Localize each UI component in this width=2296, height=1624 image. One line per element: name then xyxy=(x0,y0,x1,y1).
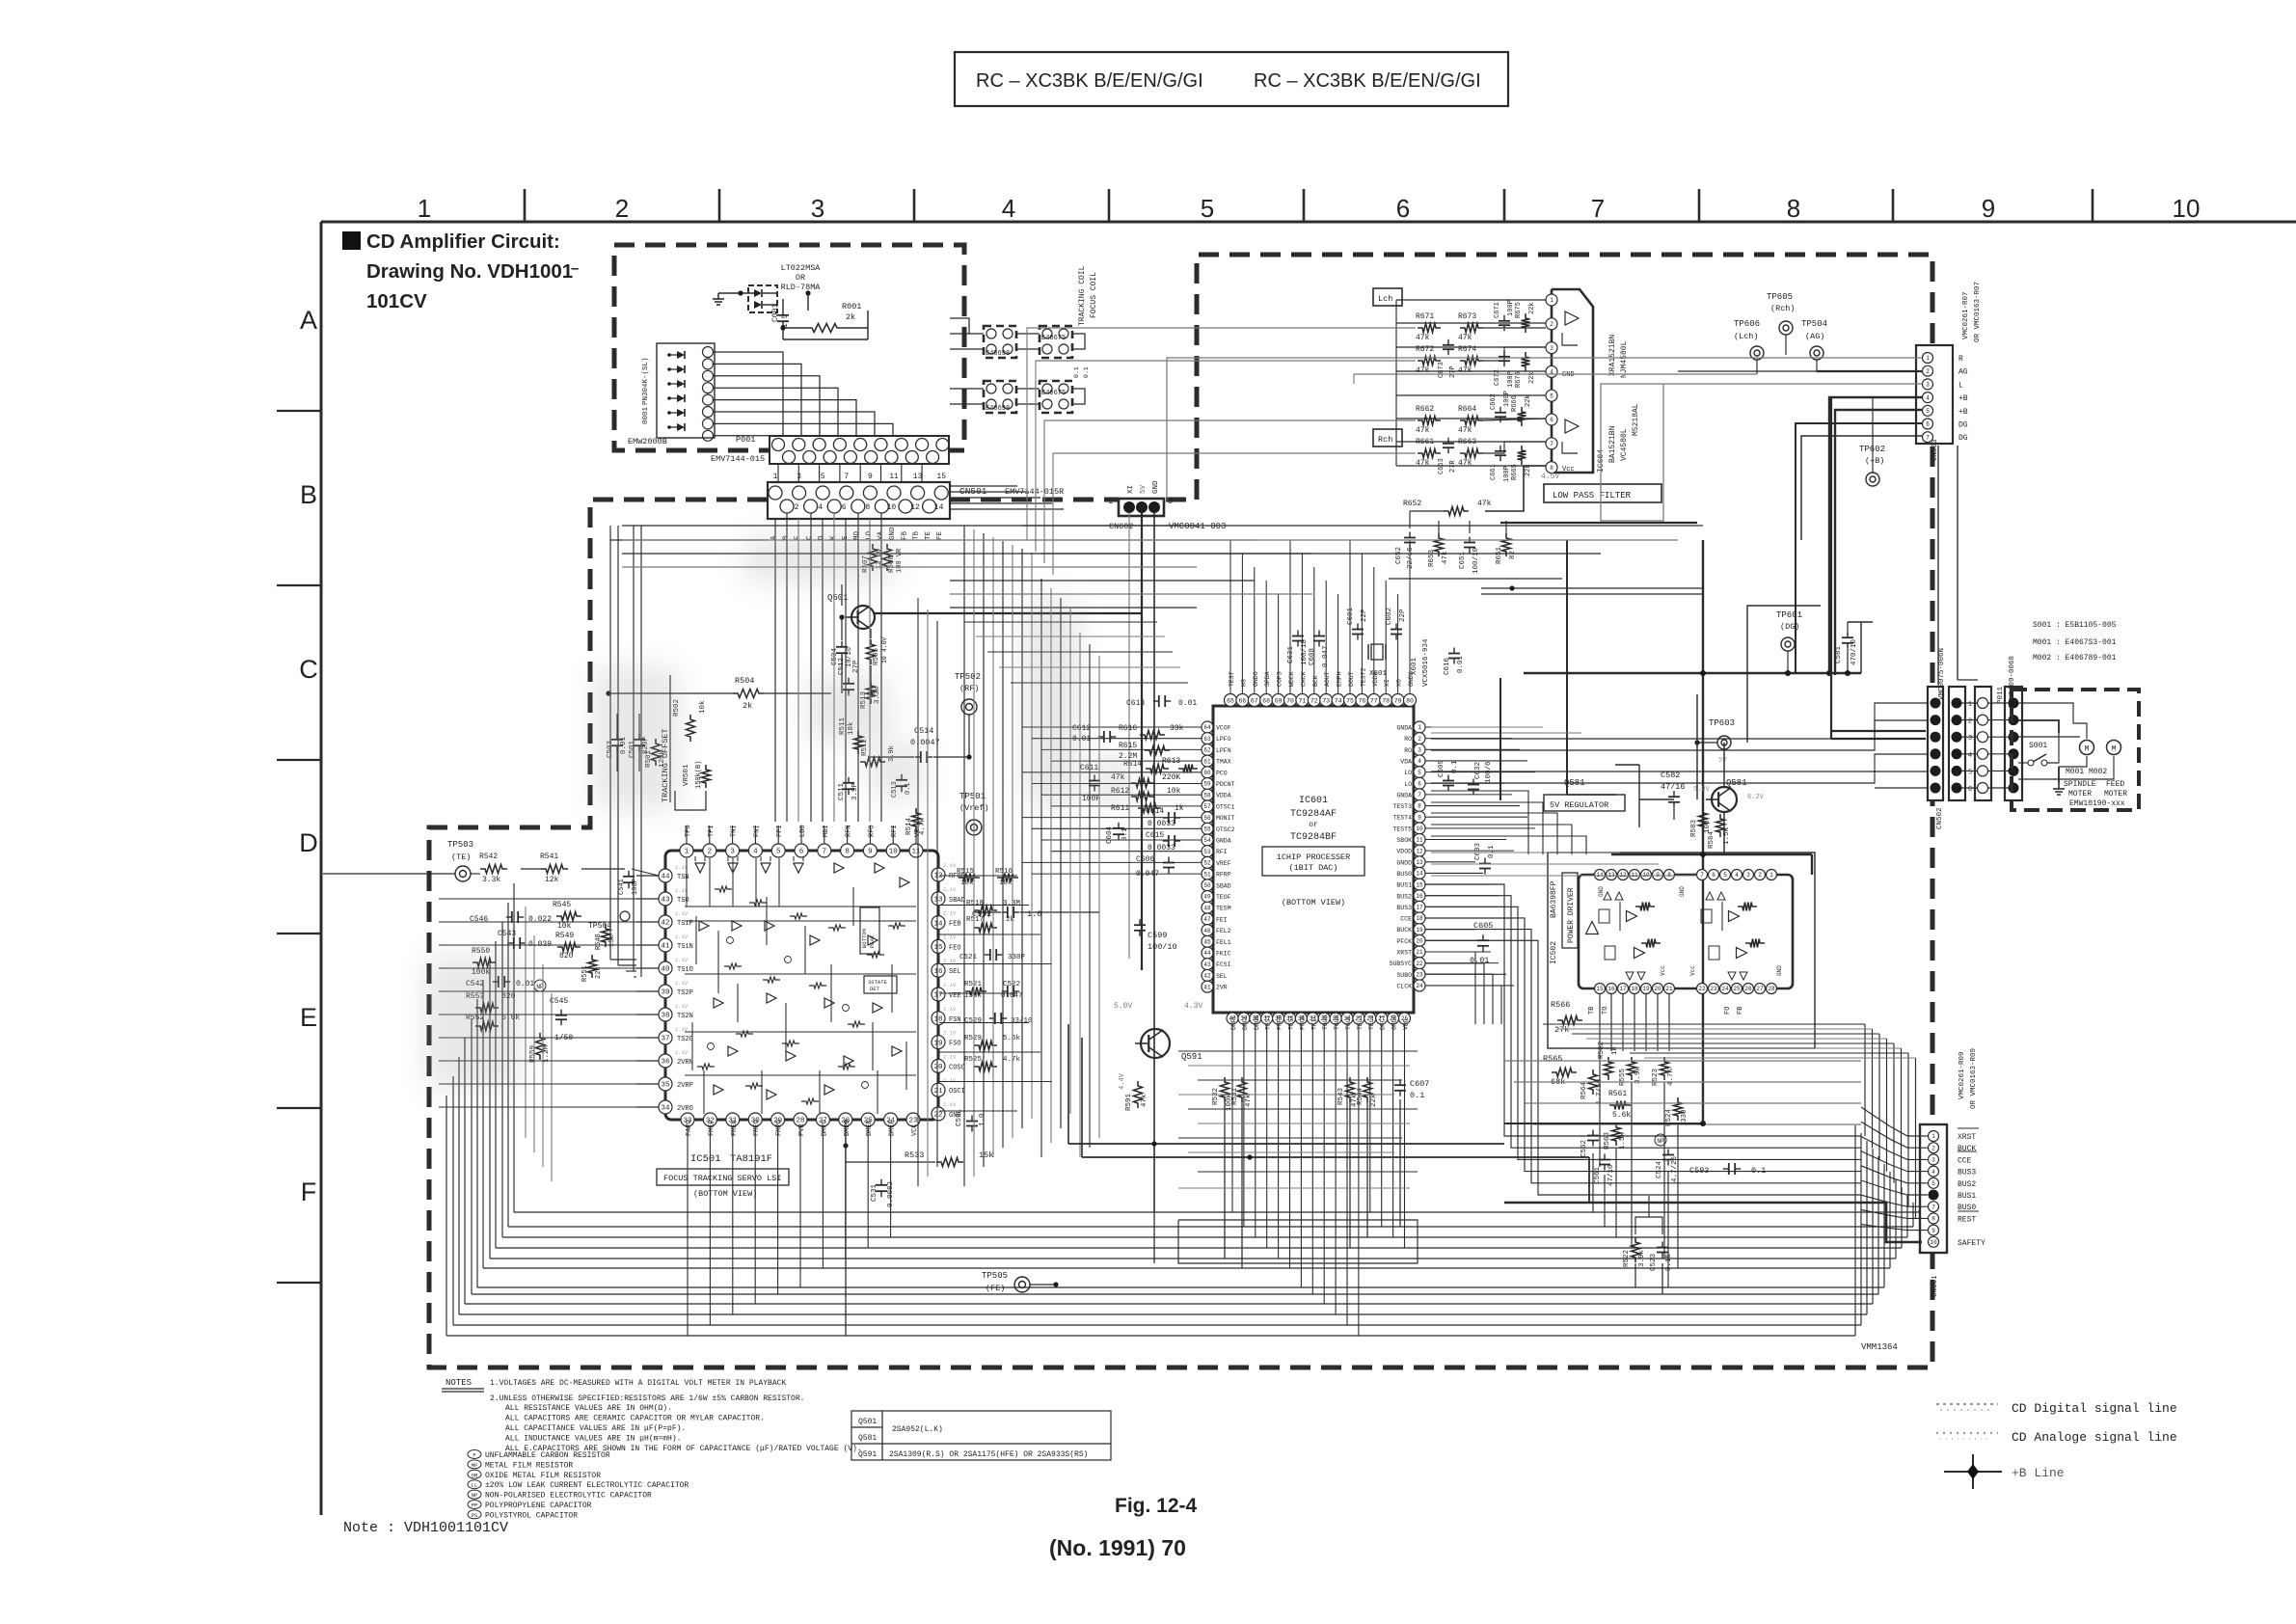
svg-text:ALL CAPACITANCE VALUES ARE IN: ALL CAPACITANCE VALUES ARE IN μF(P=pF). xyxy=(505,1424,686,1433)
svg-text:75: 75 xyxy=(1346,697,1354,704)
CN602 wires down xyxy=(1129,513,1154,1212)
svg-text:9: 9 xyxy=(1931,1228,1935,1234)
svg-text:41: 41 xyxy=(661,943,670,951)
svg-text:61: 61 xyxy=(1203,758,1211,765)
laser pickup dashed box xyxy=(614,245,964,450)
svg-text:D: D xyxy=(299,828,318,857)
IC502 TB TO labels xyxy=(1588,1007,1744,1015)
svg-text:GND: GND xyxy=(1598,886,1605,897)
resistor R550 100k xyxy=(472,947,496,977)
svg-text:1: 1 xyxy=(685,849,689,856)
test point TP602 xyxy=(1859,397,1885,486)
svg-text:BUS2: BUS2 xyxy=(1396,893,1412,900)
svg-text:RFI: RFI xyxy=(1216,849,1228,855)
svg-text:TSN: TSN xyxy=(677,874,689,881)
svg-text:HS: HS xyxy=(1240,679,1247,687)
svg-text:2.1V: 2.1V xyxy=(943,1101,957,1108)
resistor R542 3.3k xyxy=(479,853,507,884)
test point TP503 xyxy=(447,840,473,881)
svg-text:15: 15 xyxy=(1596,986,1604,992)
svg-text:EMW2000B: EMW2000B xyxy=(628,437,667,447)
laser diode D001 xyxy=(735,285,777,312)
svg-text:6: 6 xyxy=(842,503,847,512)
connector P001 xyxy=(770,436,949,464)
svg-text:1: 1 xyxy=(418,194,431,223)
svg-text:330: 330 xyxy=(1681,1109,1688,1123)
svg-text:TGUH1: TGUH1 xyxy=(1322,1011,1329,1030)
resistor R532 100k xyxy=(1212,1077,1233,1111)
op-amp IC604 outline xyxy=(1552,289,1593,473)
svg-text:14: 14 xyxy=(1416,871,1423,878)
thick bus to IC502 xyxy=(1611,852,1812,875)
svg-text:C652: C652 xyxy=(1395,547,1403,564)
svg-text:5V REGULATOR: 5V REGULATOR xyxy=(1550,800,1608,810)
svg-text:5: 5 xyxy=(1201,194,1214,223)
svg-text:EMW10190-xxx: EMW10190-xxx xyxy=(2069,799,2125,808)
svg-text:TEL1: TEL1 xyxy=(1357,1015,1364,1030)
svg-text:UNFLAMMABLE CARBON RESISTOR: UNFLAMMABLE CARBON RESISTOR xyxy=(485,1451,610,1460)
svg-text:X601: X601 xyxy=(1411,657,1418,675)
svg-text:EMV5109-0068: EMV5109-0068 xyxy=(2009,656,2016,708)
thick line y1165 xyxy=(1504,1121,1706,1126)
svg-text:18: 18 xyxy=(1416,915,1423,922)
svg-text:OTSC2: OTSC2 xyxy=(1216,826,1235,833)
capacitor C546 0.022 xyxy=(470,911,552,924)
svg-text:47k: 47k xyxy=(1416,426,1430,435)
svg-text:TP501: TP501 xyxy=(959,792,986,801)
svg-text:6: 6 xyxy=(1712,872,1715,879)
svg-text:10k: 10k xyxy=(1167,787,1181,796)
motor wires xyxy=(2018,703,2114,795)
svg-text:1: 1 xyxy=(1550,297,1553,304)
svg-text:BUS0: BUS0 xyxy=(1396,871,1412,878)
svg-text:7: 7 xyxy=(844,473,849,481)
svg-text:100/10: 100/10 xyxy=(1472,547,1480,574)
svg-text:SUBSYC: SUBSYC xyxy=(1390,961,1413,967)
svg-text:XO: XO xyxy=(1396,679,1403,687)
legend analog line xyxy=(1936,1430,2177,1445)
wire L line xyxy=(1601,384,1922,521)
connector P011 xyxy=(2005,687,2022,800)
svg-text:DOUT: DOUT xyxy=(1348,671,1355,687)
wire Q501 collector thick xyxy=(875,612,1142,614)
svg-text:47k: 47k xyxy=(1458,459,1472,468)
resistor R563 1.5k xyxy=(1604,1123,1627,1150)
svg-text:1.5k: 1.5k xyxy=(1619,1131,1627,1150)
svg-text:R665: R665 xyxy=(1511,464,1519,480)
svg-text:CCE: CCE xyxy=(1400,916,1412,923)
wires below IC502 to buses xyxy=(1593,1082,1678,1287)
capacitor C582 47/16 xyxy=(1639,771,1686,820)
svg-text:150k(B): 150k(B) xyxy=(695,761,703,789)
ground laser xyxy=(713,293,735,305)
svg-text:C672: C672 xyxy=(1494,369,1501,386)
svg-text:470/10: 470/10 xyxy=(1850,638,1858,665)
svg-text:76: 76 xyxy=(1358,697,1365,704)
svg-text:R591: R591 xyxy=(1125,1093,1133,1111)
svg-text:IC501: IC501 xyxy=(690,1153,721,1165)
resistor R611 10k 1k xyxy=(1111,787,1181,801)
photo diode array box xyxy=(657,343,715,438)
svg-text:TMAX: TMAX xyxy=(1216,759,1231,766)
svg-text:R583: R583 xyxy=(1690,819,1698,837)
svg-text:FMEO: FMEO xyxy=(753,1120,761,1136)
IC601 bottom pins xyxy=(1227,1011,1411,1030)
svg-text:SBAD: SBAD xyxy=(1216,882,1231,889)
svg-text:22k: 22k xyxy=(1370,1094,1378,1107)
svg-text:16: 16 xyxy=(933,968,943,976)
spindle motor M001 xyxy=(2080,741,2094,755)
svg-text:34: 34 xyxy=(661,1105,670,1113)
resistor R676 22k xyxy=(1515,352,1536,388)
svg-text:19: 19 xyxy=(933,1040,942,1047)
resistor R663 47k xyxy=(1458,438,1483,468)
svg-text:SPDA: SPDA xyxy=(1264,671,1271,687)
wire CN503 to CN502 verticals xyxy=(1938,446,1978,685)
resistor R505 10 xyxy=(867,629,889,696)
svg-text:(No. 1991) 70: (No. 1991) 70 xyxy=(1049,1535,1186,1560)
capacitor C001 1.5 xyxy=(771,299,790,339)
svg-text:VMM1364: VMM1364 xyxy=(1861,1342,1898,1352)
TP601 box wires xyxy=(1747,606,1821,743)
VMC0075-006N label xyxy=(1938,648,1946,700)
svg-text:1.0: 1.0 xyxy=(979,1113,986,1126)
IC502 body xyxy=(1579,875,1793,988)
svg-text:Vcc: Vcc xyxy=(1689,965,1696,976)
svg-text:R504: R504 xyxy=(735,676,754,686)
svg-text:3: 3 xyxy=(1926,382,1930,389)
capacitor C671 100P xyxy=(1494,300,1515,331)
svg-text:MOTER: MOTER xyxy=(2104,790,2127,798)
svg-text:37: 37 xyxy=(661,1036,669,1043)
svg-text:82: 82 xyxy=(1509,551,1517,559)
svg-text:TP605: TP605 xyxy=(1767,292,1793,302)
IC601 function box xyxy=(1262,847,1364,876)
capacitor C522 0.047 xyxy=(1001,981,1023,1000)
svg-text:OTSC1: OTSC1 xyxy=(1216,803,1235,810)
svg-text:FO: FO xyxy=(1724,1007,1732,1015)
svg-text:100P: 100P xyxy=(1503,391,1511,407)
wires CN501 to left bus xyxy=(610,526,768,540)
svg-text:FCSI: FCSI xyxy=(1216,961,1231,968)
svg-text:VREF: VREF xyxy=(1216,860,1231,867)
title text RC-XC3BK right xyxy=(1254,70,1481,92)
svg-text:39: 39 xyxy=(661,989,669,997)
svg-text:74: 74 xyxy=(1335,697,1342,704)
svg-text:22k: 22k xyxy=(1528,371,1536,384)
resistor R674 47k xyxy=(1458,345,1483,375)
svg-text:R664: R664 xyxy=(1458,405,1476,414)
svg-text:2.1V: 2.1V xyxy=(943,886,957,893)
svg-text:(1BIT DAC): (1BIT DAC) xyxy=(1288,863,1337,873)
svg-text:C662: C662 xyxy=(1490,393,1498,410)
svg-text:R514: R514 xyxy=(905,817,913,835)
svg-text:1: 1 xyxy=(1926,355,1930,362)
wire AG line xyxy=(1678,370,1922,372)
svg-text:SEL: SEL xyxy=(1216,973,1228,980)
CN502 label xyxy=(1936,807,1944,829)
resistor R525 4.7k xyxy=(964,1056,1021,1071)
svg-text:RC – XC3BK B/E/EN/G/GI: RC – XC3BK B/E/EN/G/GI xyxy=(1254,70,1481,92)
svg-text:POWER DRIVER: POWER DRIVER xyxy=(1567,887,1576,943)
svg-text:46: 46 xyxy=(1203,928,1211,934)
svg-text:22k: 22k xyxy=(1528,302,1536,314)
svg-text:79: 79 xyxy=(1394,697,1402,704)
svg-text:NOTES: NOTES xyxy=(446,1378,472,1388)
svg-text:SBOK: SBOK xyxy=(1396,837,1412,844)
IC501 bottom peak box xyxy=(860,907,879,954)
svg-text:GND: GND xyxy=(1562,371,1575,379)
svg-text:TRACKING COIL: TRACKING COIL xyxy=(1078,265,1087,326)
svg-text:2.1V: 2.1V xyxy=(675,1003,689,1010)
svg-text:33k: 33k xyxy=(1170,724,1184,733)
svg-text:100 VR: 100 VR xyxy=(896,548,904,573)
svg-text:R543: R543 xyxy=(1337,1087,1345,1105)
CN602 labels xyxy=(1109,480,1226,531)
resistor R584 1.5K xyxy=(1708,814,1731,849)
svg-text:E40675: E40675 xyxy=(1041,335,1066,342)
svg-text:TB: TB xyxy=(913,530,921,540)
svg-text:LDO: LDO xyxy=(799,825,807,837)
svg-text:EMV7144-015: EMV7144-015 xyxy=(711,454,765,464)
svg-text:FEED: FEED xyxy=(2106,780,2124,789)
svg-text:0.022: 0.022 xyxy=(528,915,552,924)
horizontal greys left of IC601 xyxy=(964,622,1188,683)
svg-text:R518: R518 xyxy=(966,900,984,907)
svg-text:2VRP: 2VRP xyxy=(677,1082,693,1090)
svg-text:5: 5 xyxy=(1550,392,1553,399)
svg-text:23: 23 xyxy=(1710,986,1717,992)
tracking offset label xyxy=(661,675,670,802)
svg-text:8: 8 xyxy=(865,503,870,512)
capacitor C652 22/16 xyxy=(1395,532,1416,570)
svg-text:CD Analoge signal line: CD Analoge signal line xyxy=(2012,1430,2177,1445)
svg-text:12k: 12k xyxy=(545,876,559,884)
resistor R566 27k xyxy=(1551,1000,1582,1035)
svg-text:12: 12 xyxy=(910,503,920,512)
resistor R548 15k xyxy=(595,924,616,950)
resistor R544 22k xyxy=(1357,1077,1378,1107)
svg-text:GNDA: GNDA xyxy=(1396,725,1412,732)
capacitor C514 0.0047 xyxy=(868,726,969,763)
svg-text:3: 3 xyxy=(1931,1157,1935,1164)
svg-text:100: 100 xyxy=(1704,820,1712,833)
grid column numbers xyxy=(418,194,2201,223)
svg-text:3STATE: 3STATE xyxy=(868,979,888,986)
resistor R583 100 xyxy=(1690,808,1712,837)
motor labels xyxy=(2064,768,2127,808)
svg-text:Q581: Q581 xyxy=(858,1434,877,1443)
resistor R555 3.9k xyxy=(1619,1057,1642,1086)
resistor R672 47k xyxy=(1416,345,1441,375)
svg-text:3.3k: 3.3k xyxy=(482,876,500,884)
svg-text:5: 5 xyxy=(1723,872,1727,879)
svg-text:C512: C512 xyxy=(838,658,846,675)
svg-text:C632: C632 xyxy=(1474,762,1482,779)
wire R CN503 left xyxy=(1785,328,1787,358)
resistor R564 4.7/50 xyxy=(1580,1069,1604,1105)
thick B bus vertical left xyxy=(1700,540,1706,1123)
capacitor C501 820P xyxy=(629,714,650,771)
connector CN502 column A xyxy=(1928,687,1943,800)
svg-text:9: 9 xyxy=(868,473,873,481)
svg-text:7: 7 xyxy=(1418,792,1421,798)
wires into IC601 left pins xyxy=(1022,727,1202,874)
capacitor C663 27R xyxy=(1438,438,1457,474)
svg-text:FOCUS COIL: FOCUS COIL xyxy=(1090,272,1098,318)
resistor R529 5.6k xyxy=(964,1035,1021,1050)
audio loop wires left xyxy=(1027,328,1416,575)
svg-text:TSO: TSO xyxy=(677,897,689,905)
IC601 right pins xyxy=(1390,721,1425,991)
notes line2 xyxy=(490,1394,804,1403)
svg-text:2.1V: 2.1V xyxy=(675,910,689,917)
svg-text:Drawing No. VDH1001: Drawing No. VDH1001 xyxy=(366,260,573,283)
IC501 left pins xyxy=(636,864,693,1068)
svg-text:POLYPROPYLENE CAPACITOR: POLYPROPYLENE CAPACITOR xyxy=(485,1502,592,1510)
X601 VCX5016-934 label xyxy=(1411,638,1430,687)
svg-text:0001: 0001 xyxy=(642,406,650,424)
capacitor C591 1.0 xyxy=(956,1108,986,1131)
svg-text:4: 4 xyxy=(1931,1169,1935,1176)
resistor R501 120k xyxy=(645,739,666,768)
wires CN501 right to filter xyxy=(950,486,1064,509)
bus left verticals xyxy=(610,540,641,977)
svg-text:NP: NP xyxy=(472,1492,478,1499)
test point TP504b xyxy=(1801,319,1827,371)
svg-text:VMC0075-006N: VMC0075-006N xyxy=(1938,648,1946,700)
svg-text:22P: 22P xyxy=(1399,609,1407,622)
hatch below IC601 xyxy=(1178,1051,1418,1263)
svg-text:7: 7 xyxy=(1700,872,1704,879)
coil connector E40675 lower xyxy=(1040,381,1072,413)
svg-text:10 4.6V: 10 4.6V xyxy=(881,637,888,663)
svg-text:16: 16 xyxy=(1416,893,1423,900)
svg-text:DG: DG xyxy=(1958,434,1968,443)
capacitor C593 0.1 xyxy=(1689,1163,1766,1176)
CN601 fan wires xyxy=(1861,1107,1928,1231)
svg-text:10: 10 xyxy=(1416,826,1423,832)
svg-text:19: 19 xyxy=(1642,986,1650,992)
svg-text:2: 2 xyxy=(1931,1145,1935,1151)
svg-text:FKIC: FKIC xyxy=(1216,951,1231,958)
svg-text:5V: 5V xyxy=(1718,757,1727,765)
svg-text:BUS2: BUS2 xyxy=(1958,1180,1976,1189)
capacitor C604 0.1 xyxy=(1106,823,1129,844)
svg-text:PDCNT: PDCNT xyxy=(1216,781,1235,788)
svg-text:100P: 100P xyxy=(1503,466,1511,482)
capacitor C661 100P xyxy=(1490,446,1511,482)
svg-text:820: 820 xyxy=(559,952,574,961)
bus lines IC601 to CN601 xyxy=(1425,884,1861,1195)
svg-text:47k: 47k xyxy=(1416,459,1430,468)
svg-text:5: 5 xyxy=(821,473,825,481)
svg-text:SAFETY: SAFETY xyxy=(1958,1239,1985,1248)
svg-text:17: 17 xyxy=(1619,986,1627,992)
svg-text:R651: R651 xyxy=(1496,546,1503,564)
wire DG line 1 xyxy=(1796,423,1922,673)
svg-text:C531: C531 xyxy=(871,1183,878,1202)
svg-text:67: 67 xyxy=(1251,697,1258,704)
svg-text:20: 20 xyxy=(1654,986,1661,992)
svg-text:TEST4: TEST4 xyxy=(1392,815,1412,822)
svg-text:(DG): (DG) xyxy=(1780,622,1799,632)
svg-text:DMEP: DMEP xyxy=(889,1120,897,1136)
svg-text:8: 8 xyxy=(1931,1216,1935,1223)
svg-text:IC502: IC502 xyxy=(1550,941,1558,964)
svg-text:24: 24 xyxy=(1721,986,1729,992)
svg-text:54: 54 xyxy=(1203,837,1211,844)
svg-text:43: 43 xyxy=(661,897,670,905)
svg-text:E40675: E40675 xyxy=(1041,390,1066,397)
wires IC501 right pin stubs xyxy=(939,876,1052,1111)
svg-text:VMC0261-R07: VMC0261-R07 xyxy=(1962,291,1970,339)
resistor R531 47k xyxy=(1231,1077,1253,1107)
capacitor C612 0.01 xyxy=(1072,724,1116,744)
test point TP504 xyxy=(588,911,630,931)
svg-text:LPFO: LPFO xyxy=(1216,736,1231,743)
svg-text:2k: 2k xyxy=(846,312,855,322)
svg-text:100/10: 100/10 xyxy=(1148,942,1177,952)
svg-text:XRA1521BN: XRA1521BN xyxy=(1608,335,1617,376)
svg-text:R616: R616 xyxy=(1119,724,1137,733)
svg-text:R541: R541 xyxy=(540,853,558,861)
svg-text:X601: X601 xyxy=(1369,670,1388,678)
IC601 top pins xyxy=(1225,667,1417,706)
svg-text:10: 10 xyxy=(2173,194,2201,223)
svg-text:2: 2 xyxy=(1968,718,1972,726)
svg-text:28: 28 xyxy=(1768,986,1775,992)
IC502 internal amps xyxy=(1586,911,1747,959)
IC604 pins xyxy=(1546,294,1575,474)
resistor R514 4.7k xyxy=(905,808,927,835)
svg-text:PEAK: PEAK xyxy=(869,934,876,948)
svg-text:BUCK: BUCK xyxy=(1958,1145,1976,1153)
svg-text:SUBO: SUBO xyxy=(1396,972,1412,979)
svg-text:CN602: CN602 xyxy=(1109,522,1134,531)
svg-text:PP: PP xyxy=(472,1502,478,1509)
svg-text:TEST2: TEST2 xyxy=(1360,667,1366,687)
svg-text:12: 12 xyxy=(933,873,942,880)
notes symbol list xyxy=(468,1450,689,1521)
resistor R662 47k xyxy=(1416,405,1441,435)
svg-text:EMPH: EMPH xyxy=(1337,671,1343,687)
svg-text:4: 4 xyxy=(1418,758,1421,765)
svg-text:49: 49 xyxy=(1203,894,1211,901)
resistor R652 47k xyxy=(1403,500,1492,516)
svg-text:2.UNLESS OTHERWISE SPECIFIED:R: 2.UNLESS OTHERWISE SPECIFIED:RESISTORS A… xyxy=(490,1394,804,1403)
capacitor C512 27P xyxy=(838,658,860,695)
svg-text:27P: 27P xyxy=(852,660,860,673)
svg-text:SPINDLE: SPINDLE xyxy=(2064,780,2096,789)
svg-text:GND: GND xyxy=(889,527,897,540)
svg-text:2: 2 xyxy=(1550,321,1553,328)
resistor R504 2k xyxy=(606,676,831,711)
svg-text:21: 21 xyxy=(1665,986,1673,992)
svg-text:FMEN: FMEN xyxy=(731,1120,739,1136)
svg-text:47k: 47k xyxy=(1416,334,1430,342)
resistor R673 47k xyxy=(1458,312,1483,342)
svg-text:GNDA: GNDA xyxy=(1216,838,1231,845)
svg-text:13: 13 xyxy=(933,897,943,905)
svg-text:FMEP: FMEP xyxy=(708,1120,716,1136)
resistor R502 10k xyxy=(673,699,707,742)
svg-text:0.1: 0.1 xyxy=(1083,366,1090,378)
svg-text:2: 2 xyxy=(1926,368,1930,375)
svg-text:IC601: IC601 xyxy=(1299,796,1328,806)
resistor R553 820 xyxy=(466,992,516,1013)
svg-text:2: 2 xyxy=(615,194,629,223)
